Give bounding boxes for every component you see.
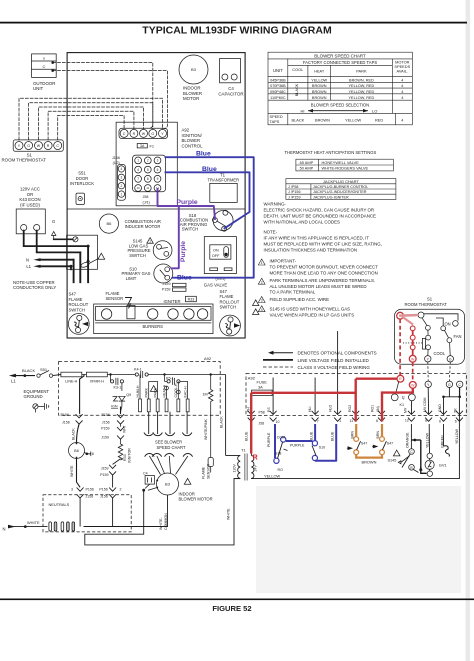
- svg-text:S47: S47: [69, 292, 77, 297]
- svg-text:PARK: PARK: [145, 387, 149, 397]
- svg-text:TAPS: TAPS: [270, 119, 280, 124]
- relay contact K3-1: [111, 375, 124, 390]
- svg-text:1: 1: [339, 419, 341, 423]
- svg-text:BLUE: BLUE: [330, 431, 334, 441]
- ground G symbol: [52, 219, 56, 239]
- combustion air inducer motor B6: [99, 214, 161, 233]
- svg-text:G: G: [52, 219, 55, 224]
- svg-text:T1: T1: [241, 447, 246, 452]
- legend line voltage: [263, 358, 370, 363]
- bottom rule: [0, 599, 474, 601]
- equipment ground: [24, 389, 50, 413]
- top rule: [0, 22, 467, 24]
- wire L1: [26, 264, 72, 269]
- svg-text:Blue: Blue: [196, 150, 211, 157]
- svg-text:BROWN: BROWN: [312, 90, 327, 94]
- svg-text:4: 4: [121, 167, 123, 171]
- wire motor common white: [84, 495, 168, 527]
- svg-text:FAN: FAN: [454, 334, 462, 339]
- svg-text:YELLOW: YELLOW: [345, 118, 362, 123]
- svg-text:INDOOR: INDOOR: [183, 86, 201, 91]
- svg-text:LINE-H: LINE-H: [65, 379, 77, 383]
- connector J159 P159: [162, 282, 186, 292]
- svg-text:COM: COM: [277, 436, 285, 440]
- wire black rail to T1: [225, 375, 227, 456]
- svg-text:.50 AMP: .50 AMP: [299, 166, 314, 171]
- red dashed R drop: [399, 319, 401, 375]
- svg-text:BLOWER SPEED CHART: BLOWER SPEED CHART: [314, 54, 366, 59]
- cabinet divider: [67, 208, 245, 210]
- resistor PARK 1: [145, 381, 151, 411]
- svg-text:LIMIT: LIMIT: [126, 276, 137, 281]
- svg-text:IF ANY WIRE IN THIS APPLIANCE: IF ANY WIRE IN THIS APPLIANCE IS REPLACE…: [264, 236, 370, 241]
- svg-text:Y: Y: [43, 56, 46, 61]
- svg-text:XFMR-H: XFMR-H: [90, 379, 105, 383]
- svg-text:S47: S47: [361, 442, 367, 446]
- svg-text:10: 10: [276, 420, 280, 424]
- wire GND net: [442, 388, 461, 415]
- svg-text:1: 1: [149, 239, 151, 243]
- svg-text:S47: S47: [387, 442, 393, 446]
- svg-text:BROWN: BROWN: [315, 118, 330, 123]
- svg-text:(J/1): (J/1): [143, 200, 150, 204]
- igniter R33: [164, 296, 197, 304]
- svg-text:JACKPLUG-BURNER CONTROL: JACKPLUG-BURNER CONTROL: [313, 185, 368, 189]
- blue circuit S18/S10 (ladder): [275, 424, 336, 461]
- svg-text:W: W: [37, 144, 41, 148]
- svg-text:120V ACC: 120V ACC: [20, 187, 40, 192]
- wire outdoor C dashed: [53, 71, 168, 129]
- svg-text:WHITE: WHITE: [27, 520, 40, 525]
- svg-text:YELLOW, RED: YELLOW, RED: [349, 96, 375, 100]
- svg-text:BROWN: BROWN: [312, 96, 327, 100]
- svg-text:LO: LO: [372, 108, 377, 113]
- svg-text:7: 7: [137, 177, 139, 181]
- svg-text:MORE THAN ONE LEAD TO ANY ONE: MORE THAN ONE LEAD TO ANY ONE CONNECTION: [270, 271, 378, 276]
- room thermostat S1 strip: [2, 140, 64, 163]
- svg-text:P58: P58: [259, 410, 265, 414]
- svg-text:RO: RO: [278, 468, 284, 472]
- neutrals dashed box: [43, 495, 131, 532]
- svg-text:2: 2: [147, 159, 149, 163]
- svg-text:CONDUCTORS ONLY: CONDUCTORS ONLY: [13, 285, 56, 290]
- svg-text:HEAT-H: HEAT-H: [162, 384, 166, 397]
- svg-text:BROWN: BROWN: [312, 84, 327, 88]
- junction verticals down: [87, 246, 89, 282]
- svg-text:HI: HI: [301, 108, 305, 113]
- legend optional components: [268, 351, 377, 356]
- svg-text:BLACK: BLACK: [295, 83, 299, 96]
- ignition blower control board A92: [116, 122, 203, 206]
- tstat terminal W red: [409, 355, 416, 362]
- svg-text:6: 6: [439, 420, 441, 424]
- heater LINE-H: [61, 372, 82, 383]
- svg-text:Q9: Q9: [126, 393, 131, 397]
- wire B6 white lead: [77, 459, 81, 488]
- resistor 1M: [203, 375, 213, 416]
- fuse F1 3A: [137, 144, 154, 149]
- switch S51 (line): [37, 367, 61, 377]
- svg-text:WHT: WHT: [123, 425, 127, 433]
- svg-text:HLO: HLO: [329, 405, 333, 412]
- svg-text:YELLOW: YELLOW: [455, 428, 459, 444]
- svg-text:1M: 1M: [203, 392, 208, 396]
- svg-text:ROLLOUT: ROLLOUT: [69, 302, 89, 307]
- svg-text:120V: 120V: [233, 464, 237, 473]
- red anticipator column: [410, 326, 415, 356]
- indoor blower motor B3 (ladder): [156, 473, 212, 502]
- wire acc L to junction: [24, 231, 88, 246]
- blower speed chart table: [268, 52, 412, 125]
- svg-text:VALVE WHEN APPLIED IN LP GAS U: VALVE WHEN APPLIED IN LP GAS UNITS: [270, 312, 355, 317]
- connector P156/J156 pair 2: [102, 407, 125, 425]
- svg-text:PURPLE: PURPLE: [290, 444, 305, 448]
- field terminal C: [457, 381, 463, 387]
- svg-text:IGNITOR: IGNITOR: [128, 448, 132, 463]
- svg-text:9: 9: [425, 419, 427, 423]
- green ground wire: [444, 424, 450, 457]
- relay contact K5-1: [165, 375, 184, 385]
- svg-text:COOL: COOL: [292, 67, 304, 72]
- wire flame sensor white/pink: [201, 415, 213, 479]
- svg-text:2: 2: [261, 280, 263, 284]
- svg-text:J /P58: J /P58: [288, 185, 298, 189]
- svg-text:C: C: [123, 132, 126, 136]
- svg-text:LINE VOLTAGE FIELD INSTALLED: LINE VOLTAGE FIELD INSTALLED: [298, 358, 370, 363]
- svg-text:IMPORTANT-: IMPORTANT-: [270, 259, 297, 264]
- orange S47 circuit right: [362, 424, 394, 465]
- svg-text:3: 3: [261, 299, 263, 303]
- wire outdoor Y dashed: [53, 63, 153, 128]
- svg-text:HEAT: HEAT: [314, 69, 325, 74]
- unit cabinet main box: [67, 53, 245, 338]
- svg-text:10: 10: [137, 186, 140, 190]
- svg-text:DEATH. UNIT MUST BE GROUNDED I: DEATH. UNIT MUST BE GROUNDED IN ACCORDAN…: [264, 214, 377, 219]
- svg-text:SPEED CHART: SPEED CHART: [157, 445, 187, 450]
- tstat terminal Y: [425, 356, 431, 362]
- svg-text:3A: 3A: [258, 384, 263, 389]
- field supplied triangle 3: [258, 297, 329, 303]
- svg-text:J156: J156: [62, 420, 70, 424]
- svg-text:GROUND: GROUND: [24, 394, 43, 399]
- svg-text:J156: J156: [112, 156, 120, 160]
- svg-text:1: 1: [261, 261, 263, 265]
- svg-text:J159: J159: [101, 436, 109, 440]
- svg-text:L1: L1: [26, 264, 31, 269]
- svg-text:45: 45: [402, 396, 406, 400]
- tstat terminal R red: [397, 312, 404, 319]
- blue wire 2 (J58 to S18): [166, 172, 250, 228]
- svg-text:P156: P156: [61, 413, 69, 417]
- switch S18 contacts (ladder): [274, 436, 305, 472]
- relay coil K1: [391, 382, 415, 408]
- park terminal forks: [145, 454, 193, 457]
- connector chevrons P58/J58 row: [248, 411, 463, 422]
- svg-text:12: 12: [405, 419, 409, 423]
- A92 dashed box right: [246, 374, 467, 416]
- tap wire end forks: [144, 433, 192, 436]
- svg-text:F1: F1: [150, 144, 155, 149]
- svg-text:SWITCH: SWITCH: [129, 253, 146, 258]
- blue wire 1 (J58 to S10 loop): [166, 157, 254, 278]
- fuse F1 3A (ladder): [252, 380, 273, 396]
- red circuit overlay (ladder): [251, 379, 413, 454]
- svg-text:B6: B6: [74, 449, 79, 453]
- svg-text:PURPLE: PURPLE: [267, 432, 271, 447]
- wire acc R to junction: [37, 231, 81, 253]
- field terminal Y: [425, 362, 431, 387]
- svg-text:PS: PS: [267, 407, 271, 412]
- svg-text:P159: P159: [162, 288, 171, 292]
- svg-text:OFF: OFF: [212, 254, 220, 258]
- neutral splice capsules: [49, 522, 75, 531]
- svg-text:EQUIPMENT: EQUIPMENT: [24, 389, 50, 394]
- gas valve box GV1: [204, 237, 237, 288]
- note text block: [264, 230, 382, 253]
- svg-text:INSULATION THICKNESS AND TERMI: INSULATION THICKNESS AND TERMINATION: [264, 247, 358, 252]
- svg-text:WHITE: WHITE: [227, 508, 231, 520]
- svg-text:A92: A92: [204, 356, 212, 361]
- svg-text:110P60C: 110P60C: [270, 96, 286, 100]
- transformer T1 box: [208, 172, 240, 202]
- svg-text:J159: J159: [163, 282, 171, 286]
- svg-text:DENOTES OPTIONAL COMPONENTS: DENOTES OPTIONAL COMPONENTS: [298, 351, 377, 356]
- svg-text:BROWN, RED: BROWN, RED: [349, 78, 374, 82]
- orange S47 circuit left: [347, 424, 382, 458]
- svg-text:THERMOSTAT HEAT ANTICIPATION S: THERMOSTAT HEAT ANTICIPATION SETTINGS: [285, 150, 377, 155]
- wire HLO long: [337, 331, 339, 414]
- svg-text:SWITCH: SWITCH: [182, 226, 199, 231]
- primary gas limit S10: [122, 264, 173, 283]
- igniter chain: P159/J159 connector: [101, 424, 127, 444]
- svg-text:J156: J156: [102, 420, 110, 424]
- svg-text:BLACK: BLACK: [72, 428, 76, 440]
- svg-text:6: 6: [455, 420, 457, 424]
- svg-text:J /P156: J /P156: [288, 190, 301, 194]
- svg-text:MOTOR: MOTOR: [183, 96, 199, 101]
- inducer motor B6 (ladder): [69, 443, 93, 459]
- igniter R33 resistor: [118, 444, 131, 463]
- scan band right edge: [466, 0, 471, 661]
- connector chevron labels vertical: [246, 398, 457, 413]
- svg-text:J159: J159: [101, 466, 109, 470]
- thermostat heat anticipation settings table: [285, 150, 394, 171]
- connector pin numbers: [259, 410, 457, 425]
- wire yellow bottom run: [251, 388, 459, 479]
- svg-text:S47: S47: [220, 289, 228, 294]
- svg-text:ALL UNUSED MOTOR LEADS MUST BE: ALL UNUSED MOTOR LEADS MUST BE WIRED: [270, 284, 367, 289]
- svg-text:YELLOW: YELLOW: [311, 78, 327, 82]
- resistor COOL-H: [174, 381, 180, 411]
- svg-text:A92: A92: [182, 128, 190, 133]
- svg-text:COOL: COOL: [434, 351, 446, 356]
- svg-text:G: G: [449, 357, 452, 361]
- connector pair motor area 1: [71, 488, 94, 527]
- svg-text:B3: B3: [165, 482, 171, 487]
- svg-text:DOOR: DOOR: [76, 176, 89, 181]
- svg-text:CLASS II VOLTAGE FIELD WIRING: CLASS II VOLTAGE FIELD WIRING: [298, 365, 371, 370]
- svg-text:BLOWER: BLOWER: [182, 138, 201, 143]
- blue wire color labels: [245, 428, 459, 448]
- wire main rail: [82, 374, 87, 376]
- connector pair motor area 2: [99, 488, 121, 527]
- svg-text:4: 4: [401, 78, 403, 82]
- igniter J159/P159 lower connector: [100, 459, 120, 488]
- svg-text:WITH NATIONAL AND LOCAL CODES: WITH NATIONAL AND LOCAL CODES: [264, 220, 341, 225]
- indoor blower motor B3: [179, 55, 208, 101]
- svg-text:SENSOR: SENSOR: [206, 463, 210, 479]
- svg-text:P159: P159: [101, 427, 109, 431]
- svg-text:GND: GND: [438, 404, 442, 412]
- svg-text:MV COM: MV COM: [423, 398, 427, 412]
- purple wire (J58 to S18/S10): [158, 189, 216, 219]
- svg-text:Purple: Purple: [180, 241, 187, 262]
- svg-text:7: 7: [317, 420, 319, 424]
- svg-text:TO PREVENT MOTOR BURNOUT, NEVE: TO PREVENT MOTOR BURNOUT, NEVER CONNECT: [270, 265, 379, 270]
- svg-text:3A: 3A: [140, 144, 145, 148]
- svg-text:BLOWER: BLOWER: [183, 91, 202, 96]
- svg-text:SWITCH: SWITCH: [69, 307, 86, 312]
- svg-text:C: C: [56, 144, 59, 148]
- svg-text:OR: OR: [27, 192, 33, 197]
- svg-text:2: 2: [121, 184, 123, 188]
- park terminals triangle 2: [258, 278, 375, 295]
- svg-text:WHITE-RODGERS VALVE: WHITE-RODGERS VALVE: [322, 166, 369, 171]
- svg-text:Purple: Purple: [177, 199, 198, 206]
- svg-text:090P48C: 090P48C: [270, 90, 286, 94]
- svg-text:RO2: RO2: [348, 405, 352, 412]
- L1 entry: [9, 368, 36, 383]
- jackplug chart table: [286, 179, 396, 200]
- tstat internal wiring: [424, 314, 458, 321]
- triangle warning: [98, 253, 105, 259]
- svg-text:R: R: [133, 132, 136, 136]
- scan shading bottom right: [256, 486, 461, 593]
- svg-text:BROWN: BROWN: [362, 460, 377, 465]
- svg-text:W: W: [142, 132, 146, 136]
- svg-text:A92: A92: [248, 376, 256, 381]
- svg-text:BLUE: BLUE: [245, 431, 249, 441]
- svg-text:COOL-H: COOL-H: [174, 383, 178, 397]
- svg-text:J /P159: J /P159: [288, 195, 301, 199]
- svg-text:3: 3: [121, 176, 123, 180]
- svg-text:S51: S51: [78, 171, 86, 176]
- svg-text:R: R: [47, 144, 50, 148]
- svg-text:6: 6: [376, 419, 378, 423]
- svg-text:SENSOR: SENSOR: [106, 296, 124, 301]
- svg-text:FIGURE 52: FIGURE 52: [212, 604, 251, 613]
- svg-text:P156: P156: [99, 488, 107, 492]
- relay contact K4-1: [134, 368, 148, 378]
- svg-text:24V: 24V: [253, 465, 257, 472]
- svg-text:MUST BE REPLACED WITH WIRE OF: MUST BE REPLACED WITH WIRE OF LIKE SIZE,…: [264, 242, 382, 247]
- svg-text:C4: C4: [143, 471, 148, 475]
- svg-text:J58: J58: [259, 421, 265, 425]
- svg-text:3: 3: [157, 159, 159, 163]
- connector P156/J156 pair 1: [61, 375, 85, 425]
- svg-text:11: 11: [146, 186, 149, 190]
- svg-text:B6: B6: [106, 221, 112, 226]
- svg-text:YELLOW, RED: YELLOW, RED: [349, 90, 375, 94]
- warning text block: [264, 201, 377, 224]
- wire ground to screw: [54, 238, 73, 240]
- wire tstat R to board dashed: [48, 111, 134, 140]
- svg-text:TO A PARK TERMINAL: TO A PARK TERMINAL: [270, 290, 316, 295]
- gas valve GV1 (ladder): [402, 424, 447, 476]
- svg-text:S145: S145: [388, 459, 397, 463]
- red dashed W drop: [412, 362, 414, 381]
- flame rollout switch S47 left: [68, 292, 89, 335]
- svg-text:WHITE/PINK: WHITE/PINK: [204, 418, 208, 440]
- svg-text:ROOM THERMOSTAT: ROOM THERMOSTAT: [405, 302, 448, 307]
- tstat terminal G: [447, 356, 453, 362]
- door interlock S51: [70, 171, 94, 205]
- svg-text:EAC-H: EAC-H: [183, 386, 187, 398]
- S145 triangle 4: [258, 306, 354, 318]
- switch S10 contacts (ladder): [312, 424, 325, 461]
- outdoor unit: [32, 54, 57, 91]
- S1 room thermostat (ladder): [394, 297, 464, 365]
- svg-text:S10: S10: [319, 445, 325, 449]
- svg-text:ROOM THERMOSTAT: ROOM THERMOSTAT: [2, 157, 47, 162]
- capacitor C4: [218, 59, 243, 97]
- red jumper R to switch: [400, 314, 418, 317]
- svg-text:Blue: Blue: [202, 166, 217, 173]
- arrow up on junction wire: [86, 258, 90, 263]
- svg-text:S18: S18: [275, 452, 281, 456]
- wire MV COM: [427, 388, 429, 415]
- svg-text:3: 3: [71, 488, 73, 492]
- svg-text:COMMON: COMMON: [164, 513, 168, 530]
- svg-text:CAPACITOR: CAPACITOR: [218, 91, 243, 96]
- resistor PARK 2: [149, 381, 159, 411]
- svg-text:4: 4: [261, 308, 263, 312]
- svg-text:R33: R33: [188, 298, 195, 302]
- svg-text:1: 1: [137, 159, 139, 163]
- svg-text:FLAME: FLAME: [201, 466, 205, 479]
- svg-text:G: G: [27, 144, 30, 148]
- run capacitor C4 (ladder): [142, 471, 156, 491]
- svg-text:IGNITER: IGNITER: [164, 299, 181, 304]
- jackplug J58 grid: [133, 155, 166, 204]
- svg-text:K1: K1: [400, 403, 405, 407]
- svg-text:YELLOW, RED: YELLOW, RED: [349, 84, 375, 88]
- low gas pressure switch S145: [127, 238, 172, 260]
- svg-text:8: 8: [147, 177, 149, 181]
- svg-text:BLACK: BLACK: [292, 118, 305, 123]
- wire motor start white: [85, 479, 240, 545]
- svg-text:JACKPLUG-INDUCER/IGNITER: JACKPLUG-INDUCER/IGNITER: [313, 190, 367, 194]
- wire N entry white: [3, 520, 48, 531]
- combustion air proving switch S18: [180, 210, 233, 231]
- svg-text:R33: R33: [123, 454, 127, 461]
- svg-text:P156: P156: [102, 413, 110, 417]
- svg-text:BURNERS: BURNERS: [142, 324, 163, 329]
- flame sensor (upper): [106, 291, 132, 308]
- svg-text:S145 IS USED WITH HONEYWELL GA: S145 IS USED WITH HONEYWELL GAS: [270, 306, 351, 311]
- svg-text:045P36B: 045P36B: [270, 78, 286, 82]
- svg-text:JACKPLUG-IGNITER: JACKPLUG-IGNITER: [313, 195, 349, 199]
- warning triangles near gas valve: [253, 300, 259, 306]
- svg-text:MV: MV: [404, 407, 408, 413]
- svg-text:SEE BLOWER: SEE BLOWER: [155, 439, 182, 444]
- svg-text:FLAME: FLAME: [220, 294, 234, 299]
- svg-text:UNIT: UNIT: [273, 68, 283, 73]
- svg-text:JACKPLUG CHART: JACKPLUG CHART: [323, 179, 359, 184]
- svg-text:9: 9: [157, 177, 159, 181]
- svg-text:FLAME: FLAME: [69, 297, 83, 302]
- svg-text:UNIT: UNIT: [33, 86, 44, 91]
